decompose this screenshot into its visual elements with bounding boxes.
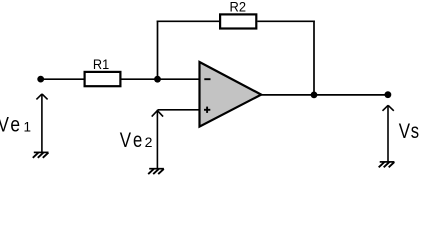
svg-text:e: e [133, 128, 142, 152]
wire: op-amp output to Vs terminal [261, 94, 388, 96]
op-amp U1 [200, 62, 262, 127]
node: Ve1 input terminal [37, 76, 44, 83]
op-amp non-inverting input marker (+) [204, 107, 210, 113]
wire: non-inverting input [158, 109, 200, 111]
svg-text:V: V [120, 128, 132, 152]
wire: feedback riser left [157, 21, 159, 80]
resistor R1 [85, 72, 121, 86]
resistor R2 [220, 14, 256, 28]
wire: R2 to feedback riser right [257, 20, 314, 22]
label R1 [93, 56, 109, 72]
svg-text:2: 2 [145, 134, 153, 150]
wire: Ve2 riser [156, 110, 158, 169]
svg-text:R1: R1 [93, 56, 109, 72]
ground (Ve1) [33, 152, 49, 157]
label Vs [399, 119, 419, 143]
svg-text:e: e [10, 112, 20, 136]
voltage arrow Ve1 [36, 94, 47, 152]
label R2 [230, 0, 247, 15]
svg-text:V: V [399, 119, 411, 143]
wire: input terminal to R1 [41, 78, 84, 80]
ground (Vs) [379, 162, 395, 167]
wire: R1 to op-amp inverting input [122, 78, 200, 80]
voltage arrow Ve2 (arrowhead) [152, 111, 163, 117]
op-amp inverting input marker (-) [204, 78, 210, 80]
node: output feedback junction [311, 92, 318, 99]
label Ve2 [120, 128, 153, 152]
wire: feedback riser right [313, 21, 315, 96]
svg-text:R2: R2 [230, 0, 247, 15]
wire: feedback top left to R2 [157, 20, 220, 22]
voltage arrow Vs [383, 105, 394, 162]
node: inverting input junction [154, 76, 161, 83]
svg-text:V: V [0, 112, 9, 136]
svg-text:s: s [411, 119, 419, 143]
label Ve1 [0, 112, 31, 136]
ground (Ve2) [148, 169, 164, 174]
node: Vs output terminal [385, 91, 392, 98]
svg-text:1: 1 [24, 119, 32, 134]
